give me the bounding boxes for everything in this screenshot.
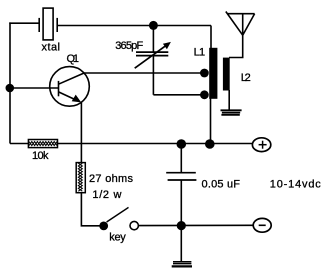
wire antenna lead down and jog to L2 — [229, 35, 243, 58]
node dot L1 upper tap — [200, 69, 209, 78]
wire lower tap to L1 — [153, 94, 204, 96]
node dot bottom rail — [177, 221, 186, 230]
terminal plus — [252, 138, 270, 152]
svg-text:L1: L1 — [194, 47, 206, 59]
node dot L1 lower tap — [200, 90, 209, 99]
antenna — [226, 12, 255, 36]
inductor L1 — [209, 48, 217, 99]
wire bypass cap bottom lead to ground — [180, 180, 182, 261]
wire L2 bottom lead to ground — [228, 90, 230, 110]
node dot top rail — [149, 21, 158, 30]
inductor L2 — [223, 58, 230, 91]
svg-text:10-14vdc: 10-14vdc — [270, 179, 322, 191]
resistor 10k — [28, 140, 57, 148]
wire collector — [84, 72, 204, 74]
variable capacitor 365pF — [135, 44, 169, 68]
svg-text:27 ohms: 27 ohms — [89, 173, 134, 185]
key switch — [99, 207, 138, 230]
transistor Q1 — [50, 67, 90, 107]
wire left rail — [9, 22, 11, 143]
wire drop to L1 top — [210, 26, 212, 50]
svg-text:0.05 uF: 0.05 uF — [202, 179, 241, 191]
node dot rail left — [177, 139, 187, 149]
wire variable-cap branch upper — [152, 26, 154, 53]
wire base — [10, 87, 59, 89]
wire top rail crystal to L1 drop — [57, 25, 211, 27]
wire bypass cap top lead — [180, 144, 182, 173]
node dot rail right — [205, 139, 215, 149]
wire top-left from left rail to crystal — [9, 22, 39, 24]
svg-text:Q 1: Q 1 — [67, 53, 80, 65]
resistor 27 ohms — [76, 163, 85, 193]
terminal minus — [253, 218, 271, 232]
wire key to bottom rail — [139, 224, 253, 226]
svg-text:10k: 10k — [32, 150, 49, 162]
capacitor 0.05 uF — [166, 173, 196, 180]
wire L1 bottom feed to rail — [210, 98, 212, 144]
crystal XTAL — [39, 8, 57, 40]
ground below L2 — [221, 110, 242, 115]
emitter arrowhead of Q1 — [72, 95, 82, 103]
svg-text:365pF: 365pF — [115, 40, 143, 52]
arrowhead of 365pF arrow — [163, 42, 171, 49]
ground below bypass cap — [172, 262, 192, 267]
node dot base — [6, 84, 15, 93]
wire 27ohm bottom to key corner — [81, 193, 99, 226]
svg-text:key: key — [109, 231, 126, 243]
wire supply rail — [10, 143, 253, 145]
svg-text:1/2 w: 1/2 w — [92, 189, 121, 201]
svg-text:xtal: xtal — [42, 42, 61, 54]
wire variable-cap branch lower — [152, 56, 154, 95]
svg-text:L2: L2 — [241, 72, 251, 84]
wire emitter vertical — [80, 102, 82, 163]
